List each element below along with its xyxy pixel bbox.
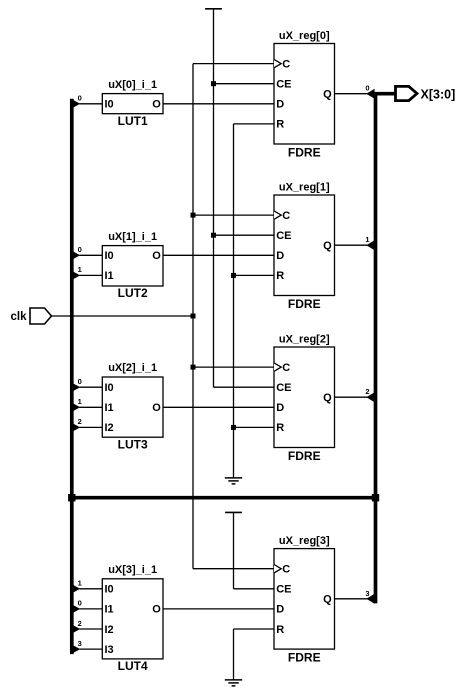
wire const0 to uX_reg[1] pin R xyxy=(234,274,275,276)
bus tap arrow bit 3 (left bus) xyxy=(71,644,80,654)
svg-text:O: O xyxy=(152,99,161,111)
bus tap arrow bit 2 (right bus) xyxy=(366,392,374,402)
wire clk to uX_reg[0] pin C xyxy=(193,63,274,65)
svg-text:D: D xyxy=(276,99,284,111)
bus tap arrow bit 1 (left bus) xyxy=(71,584,80,594)
svg-text:FDRE: FDRE xyxy=(288,145,321,159)
wire uX_reg[3] pin R to ground xyxy=(234,628,275,630)
svg-text:LUT1: LUT1 xyxy=(118,114,148,128)
flip-flop FDRE uX_reg[2] body xyxy=(274,347,335,448)
power symbol VCC const1 xyxy=(205,8,222,10)
net const1 lower vertical xyxy=(233,512,235,588)
wire bit 0 to LUT input xyxy=(80,254,104,256)
LUT LUT1 uX[0]_i_1 body xyxy=(102,94,163,114)
svg-text:Q: Q xyxy=(323,89,332,101)
bus junction left xyxy=(68,494,75,501)
svg-text:I0: I0 xyxy=(105,382,114,394)
svg-text:0: 0 xyxy=(365,84,369,93)
svg-text:X[3:0]: X[3:0] xyxy=(421,87,456,101)
wire uX_reg[2] Q to bus xyxy=(335,396,368,398)
LUT LUT2 uX[1]_i_1 body xyxy=(102,246,163,286)
wire bit 0 to LUT input xyxy=(80,103,104,105)
svg-text:FDRE: FDRE xyxy=(288,297,321,311)
svg-text:1: 1 xyxy=(78,397,82,406)
wire uX[2]_i_1 O to uX_reg[2] pin D xyxy=(163,406,274,408)
bus X[3:0] to output port xyxy=(374,92,396,96)
svg-text:3: 3 xyxy=(78,639,82,648)
wire bit 1 to LUT input xyxy=(80,274,104,276)
clock triangle pin C xyxy=(274,59,281,67)
svg-text:2: 2 xyxy=(78,417,82,426)
wire bit 1 to LUT input xyxy=(80,588,104,590)
wire bit 1 to LUT input xyxy=(80,406,104,408)
svg-text:R: R xyxy=(276,270,284,282)
wire uX[0]_i_1 O to uX_reg[0] pin D xyxy=(163,103,274,105)
svg-text:Q: Q xyxy=(323,594,332,606)
svg-text:I1: I1 xyxy=(105,270,114,282)
svg-text:uX_reg[1]: uX_reg[1] xyxy=(279,181,330,193)
svg-text:R: R xyxy=(276,624,284,636)
wire clk to uX_reg[1] pin C xyxy=(193,214,274,216)
bus tap arrow bit 3 (right bus) xyxy=(366,594,374,604)
wire uX_reg[3] Q to bus xyxy=(335,598,368,600)
svg-text:1: 1 xyxy=(78,579,82,588)
bus tap arrow bit 1 (right bus) xyxy=(366,240,374,250)
junction const0 at uX_reg[1] pin R xyxy=(231,273,236,278)
svg-text:3: 3 xyxy=(365,589,369,598)
svg-text:I0: I0 xyxy=(105,99,114,111)
LUT LUT4 uX[3]_i_1 body xyxy=(102,579,163,659)
svg-text:uX[0]_i_1: uX[0]_i_1 xyxy=(108,79,157,91)
net const0 vertical xyxy=(233,124,235,478)
svg-text:I2: I2 xyxy=(105,624,114,636)
bus X[3:0] horizontal feedback xyxy=(70,496,377,500)
svg-text:C: C xyxy=(282,362,290,374)
bus tap arrow bit 0 (left bus) xyxy=(71,250,80,260)
svg-text:uX_reg[3]: uX_reg[3] xyxy=(279,535,330,547)
wire uX[1]_i_1 O to uX_reg[1] pin D xyxy=(163,254,274,256)
svg-text:I0: I0 xyxy=(105,250,114,262)
bus tap arrow bit 2 (left bus) xyxy=(71,624,80,634)
svg-text:uX[2]_i_1: uX[2]_i_1 xyxy=(108,362,157,374)
wire bit 3 to LUT input xyxy=(80,648,104,650)
wire bit 2 to LUT input xyxy=(80,628,104,630)
svg-text:D: D xyxy=(276,250,284,262)
net const1 vertical xyxy=(213,9,215,387)
wire bit 2 to LUT input xyxy=(80,426,104,428)
wire const0 to uX_reg[2] pin R xyxy=(234,426,275,428)
svg-text:LUT3: LUT3 xyxy=(118,437,148,451)
wire const1 to uX_reg[2] pin CE xyxy=(214,386,275,388)
net const0 lower vertical xyxy=(233,629,235,680)
svg-text:I2: I2 xyxy=(105,422,114,434)
junction clk at port wire xyxy=(191,314,196,319)
junction clk at uX_reg[1] pin C xyxy=(191,213,196,218)
svg-text:R: R xyxy=(276,119,284,131)
svg-text:I0: I0 xyxy=(105,584,114,596)
bus tap arrow bit 1 (left bus) xyxy=(71,270,80,280)
wire uX_reg[0] Q to bus xyxy=(335,93,368,95)
junction const1 at uX_reg[0] pin CE xyxy=(211,81,216,86)
svg-text:I3: I3 xyxy=(105,644,114,656)
svg-text:2: 2 xyxy=(365,387,369,396)
net clk vertical xyxy=(192,64,194,569)
wire uX[3]_i_1 O to uX_reg[3] pin D xyxy=(163,608,274,610)
svg-text:Q: Q xyxy=(323,392,332,404)
svg-text:LUT4: LUT4 xyxy=(118,659,148,673)
wire const1 to uX_reg[1] pin CE xyxy=(214,234,275,236)
svg-text:C: C xyxy=(282,58,290,70)
svg-text:D: D xyxy=(276,402,284,414)
ground symbol GND const0 xyxy=(225,478,242,484)
bus X[3:0] right vertical xyxy=(374,94,378,604)
svg-text:2: 2 xyxy=(78,619,82,628)
wire const1 to uX_reg[3] pin CE xyxy=(234,588,275,590)
wire bit 0 to LUT input xyxy=(80,386,104,388)
ground symbol GND const0 (lower) xyxy=(225,680,242,686)
bus tap arrow bit 0 (left bus) xyxy=(71,382,80,392)
power symbol VCC const1 (lower) xyxy=(225,511,242,513)
svg-text:0: 0 xyxy=(78,94,82,103)
svg-text:R: R xyxy=(276,422,284,434)
svg-text:I1: I1 xyxy=(105,402,114,414)
input port clk xyxy=(11,308,52,324)
svg-text:Q: Q xyxy=(323,240,332,252)
wire const1 to uX_reg[0] pin CE xyxy=(214,83,275,85)
svg-text:1: 1 xyxy=(365,235,369,244)
clock triangle pin C xyxy=(274,211,281,219)
svg-text:1: 1 xyxy=(78,265,82,274)
svg-text:FDRE: FDRE xyxy=(288,651,321,665)
bus tap arrow bit 1 (left bus) xyxy=(71,402,80,412)
junction const1 at uX_reg[1] pin CE xyxy=(211,233,216,238)
svg-text:O: O xyxy=(152,250,161,262)
svg-text:uX_reg[0]: uX_reg[0] xyxy=(279,30,330,42)
bus tap arrow bit 2 (left bus) xyxy=(71,422,80,432)
LUT LUT3 uX[2]_i_1 body xyxy=(102,377,163,437)
clock triangle pin C xyxy=(274,363,281,371)
wire clk to uX_reg[2] pin C xyxy=(193,366,274,368)
svg-text:FDRE: FDRE xyxy=(288,449,321,463)
svg-text:O: O xyxy=(152,604,161,616)
wire uX_reg[1] Q to bus xyxy=(335,244,368,246)
wire clk from port xyxy=(52,315,194,317)
bus junction right xyxy=(372,494,379,501)
svg-text:O: O xyxy=(152,402,161,414)
bus tap arrow bit 0 (left bus) xyxy=(71,99,80,109)
flip-flop FDRE uX_reg[3] body xyxy=(274,549,335,650)
svg-text:CE: CE xyxy=(276,382,291,394)
svg-text:uX_reg[2]: uX_reg[2] xyxy=(279,333,330,345)
bus X[3:0] left vertical xyxy=(70,99,74,654)
svg-text:CE: CE xyxy=(276,79,291,91)
bus tap arrow bit 0 (left bus) xyxy=(71,604,80,614)
svg-text:0: 0 xyxy=(78,377,82,386)
junction const0 at uX_reg[2] pin R xyxy=(231,425,236,430)
wire bit 0 to LUT input xyxy=(80,608,104,610)
wire clk to uX_reg[3] pin C xyxy=(193,568,274,570)
svg-text:I1: I1 xyxy=(105,604,114,616)
output port X[3:0] xyxy=(396,86,456,101)
svg-text:uX[3]_i_1: uX[3]_i_1 xyxy=(108,564,157,576)
svg-text:clk: clk xyxy=(11,311,28,323)
svg-text:CE: CE xyxy=(276,584,291,596)
svg-text:CE: CE xyxy=(276,230,291,242)
svg-text:0: 0 xyxy=(78,599,82,608)
flip-flop FDRE uX_reg[0] body xyxy=(274,44,335,145)
svg-text:C: C xyxy=(282,210,290,222)
svg-text:C: C xyxy=(282,564,290,576)
svg-text:0: 0 xyxy=(78,245,82,254)
bus tap arrow bit 0 (right bus) xyxy=(366,89,374,99)
clock triangle pin C xyxy=(274,565,281,573)
junction clk at uX_reg[2] pin C xyxy=(191,365,196,370)
svg-text:D: D xyxy=(276,604,284,616)
wire const0 to uX_reg[0] pin R xyxy=(234,123,275,125)
svg-text:uX[1]_i_1: uX[1]_i_1 xyxy=(108,231,157,243)
flip-flop FDRE uX_reg[1] body xyxy=(274,195,335,296)
svg-text:LUT2: LUT2 xyxy=(118,286,148,300)
